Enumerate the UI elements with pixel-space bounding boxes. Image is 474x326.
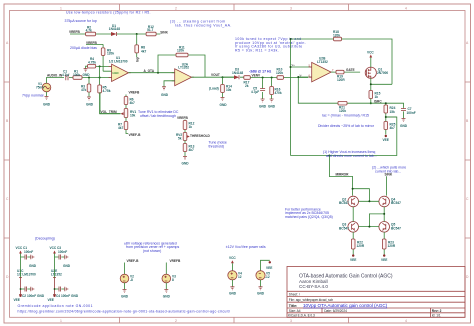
svg-text:75mV: 75mV	[36, 86, 45, 90]
svg-text:4k7: 4k7	[118, 126, 124, 130]
svg-text:THRESHOLD: THRESHOLD	[190, 134, 211, 138]
svg-text:C2 100nF GND: C2 100nF GND	[22, 294, 45, 298]
svg-text:120k: 120k	[107, 52, 114, 56]
resistor R12	[146, 25, 156, 36]
svg-text:100nF: 100nF	[58, 250, 67, 254]
svg-text:VCC: VCC	[50, 246, 57, 250]
svg-text:4.7k: 4.7k	[86, 28, 92, 32]
svg-text:VREF-B: VREF-B	[129, 133, 142, 137]
power VCC decoupling B	[50, 246, 65, 268]
resistor R8	[135, 45, 147, 53]
capacitor C_A	[24, 250, 33, 259]
svg-text:GATE: GATE	[346, 68, 355, 72]
ground right A	[29, 255, 37, 268]
svg-text:Use low-tempco resistors (25pp: Use low-tempco resistors (25ppm) for R2 …	[66, 11, 151, 15]
svg-text:GND: GND	[259, 105, 267, 109]
op-amp U1 (OTA)	[109, 56, 129, 82]
svg-text:VENV: VENV	[252, 74, 262, 78]
svg-text:GND: GND	[220, 103, 228, 107]
svg-text:KiCad E.D.A. 8.0.3: KiCad E.D.A. 8.0.3	[288, 314, 315, 318]
wire inverting input	[298, 77, 338, 103]
svg-text:-12: -12	[265, 275, 270, 279]
junction	[222, 76, 224, 78]
svg-text:VREFB: VREFB	[129, 91, 141, 95]
svg-text:VEE: VEE	[14, 298, 20, 302]
svg-text:375µA source for Iop: 375µA source for Iop	[65, 19, 97, 23]
resistor R16	[270, 78, 282, 100]
junction	[88, 77, 90, 79]
svg-text:GND: GND	[63, 264, 71, 268]
title block text	[288, 274, 442, 318]
voltage source V5	[256, 260, 270, 280]
svg-text:AUDIO_IN: AUDIO_IN	[47, 74, 63, 78]
voltage source V4	[228, 271, 242, 280]
svg-text:File: agc_whitepaper.kicad_sch: File: agc_whitepaper.kicad_sch	[289, 298, 334, 302]
power VEE V5	[266, 261, 272, 270]
ground under R14	[220, 98, 228, 108]
svg-text:120R: 120R	[337, 78, 345, 82]
voltage source V2	[120, 263, 134, 283]
svg-text:Date: 6/29/2024: Date: 6/29/2024	[324, 309, 347, 313]
resistor R15	[369, 91, 381, 104]
svg-text:120R: 120R	[388, 244, 396, 248]
wire VOUT	[192, 76, 235, 78]
wire	[86, 44, 112, 71]
transistor Q5	[379, 222, 401, 233]
ground under R4	[84, 69, 88, 72]
transistor Q4	[379, 196, 401, 207]
op-amp U2B	[309, 56, 335, 81]
pin stubs U1	[109, 66, 131, 77]
resistor R17	[244, 76, 251, 89]
svg-text:120R: 120R	[357, 244, 365, 248]
svg-text:VEE: VEE	[266, 266, 272, 270]
svg-text:10k: 10k	[130, 114, 136, 118]
svg-text:470k: 470k	[275, 91, 282, 95]
svg-text:GND: GND	[83, 73, 91, 77]
ground under V1	[43, 92, 51, 107]
potentiometer RV1	[121, 109, 137, 118]
svg-text:4k7: 4k7	[189, 148, 195, 152]
svg-text:47k: 47k	[81, 88, 87, 92]
diode D3	[223, 67, 244, 79]
svg-text:LT1352: LT1352	[51, 272, 62, 276]
svg-text:Title:: Title:	[289, 304, 298, 308]
power VEE divider	[383, 135, 389, 142]
wire mirror sense vertical	[291, 39, 397, 156]
resistor R18 feedback	[333, 30, 342, 41]
resistor R6	[124, 95, 135, 109]
resistor R19	[336, 70, 345, 82]
resistor R12b	[183, 120, 194, 133]
resistor R23	[382, 232, 395, 255]
svg-text:1: 1	[60, 7, 62, 11]
wire mirror drop	[329, 156, 369, 202]
comment: tune threshold	[209, 141, 227, 149]
svg-text:IABC: IABC	[113, 71, 119, 75]
resistor R10	[276, 67, 284, 79]
comment: pulls more current	[372, 166, 406, 174]
ground under C5	[259, 99, 267, 109]
op-amp U2A	[175, 63, 192, 86]
svg-text:VCC: VCC	[229, 256, 236, 260]
svg-text:GND: GND	[86, 103, 94, 107]
svg-text:MIRROR: MIRROR	[336, 172, 350, 176]
svg-text:GND: GND	[121, 294, 129, 298]
diode D1	[109, 24, 120, 36]
svg-text:VOUT: VOUT	[211, 73, 220, 77]
power VEE Q3	[350, 254, 356, 262]
power VCC Q1	[367, 50, 374, 67]
svg-text:Size: A4: Size: A4	[289, 309, 301, 313]
svg-text:2: 2	[175, 7, 177, 11]
svg-text:2: 2	[175, 319, 177, 323]
svg-text:4: 4	[405, 319, 407, 323]
resistor R7	[118, 118, 128, 134]
resistor R25	[384, 122, 396, 135]
svg-text:VREFB: VREFB	[177, 116, 189, 120]
svg-text:GND: GND	[182, 162, 190, 166]
svg-text:SINK: SINK	[160, 30, 168, 34]
svg-text:Iop: Iop	[136, 57, 140, 62]
svg-text:VEE: VEE	[381, 258, 387, 262]
resistor R24	[384, 105, 396, 114]
svg-text:1N4148: 1N4148	[232, 71, 243, 75]
power VEE A	[14, 295, 22, 302]
voltage source V3	[162, 263, 176, 283]
ground under R16	[268, 99, 276, 109]
svg-text:100nF: 100nF	[24, 250, 33, 254]
resistor R21	[338, 101, 371, 113]
voltage source V1	[22, 82, 51, 97]
wire	[136, 34, 138, 57]
svg-text:BC547: BC547	[391, 226, 401, 230]
ground under V2	[121, 283, 129, 299]
svg-text:GND: GND	[29, 264, 37, 268]
wire to divider	[371, 103, 404, 121]
pin stubs U2A	[172, 73, 194, 81]
resistor R13	[183, 141, 194, 157]
svg-text:1: 1	[60, 319, 62, 323]
svg-text:matched pairs (Q2/Q4, Q3/Q5): matched pairs (Q2/Q4, Q3/Q5)	[285, 215, 333, 219]
ground under U2A	[161, 81, 175, 97]
transistor Q3	[339, 222, 359, 233]
transistor Q2	[339, 196, 359, 207]
svg-text:Divider directs ~25% of Iab to: Divider directs ~25% of Iab to mirror	[318, 124, 375, 128]
svg-text:https://blog.grembier.com/2024: https://blog.grembier.com/2024/06/grembi…	[18, 310, 231, 314]
svg-text:8: 8	[172, 278, 174, 282]
svg-text:GND: GND	[257, 292, 265, 296]
svg-text:2k: 2k	[245, 84, 249, 88]
svg-text:VCC: VCC	[16, 246, 23, 250]
svg-text:V-: V-	[300, 73, 303, 77]
svg-text:GND: GND	[161, 93, 169, 97]
svg-text:and directs more current to Ia: and directs more current to Iab...	[326, 154, 377, 158]
wire gate	[331, 71, 360, 73]
svg-text:Rev: 2: Rev: 2	[432, 309, 442, 313]
svg-text:GND: GND	[43, 103, 51, 107]
ground under R13	[182, 157, 190, 166]
resistor R1	[73, 69, 90, 79]
svg-text:4: 4	[405, 7, 407, 11]
svg-text:10Vpp OTA Automatic gain contr: 10Vpp OTA Automatic gain control (AGC)	[303, 303, 388, 308]
svg-text:1/2 LM13700: 1/2 LM13700	[17, 272, 36, 276]
svg-text:SINK: SINK	[385, 172, 393, 176]
resistor R4	[88, 57, 97, 68]
resistor R14	[209, 77, 232, 97]
svg-text:VEE: VEE	[350, 258, 356, 262]
ground under V4	[229, 280, 237, 296]
resistor R22	[351, 232, 364, 255]
comment: 100k tuned	[235, 37, 306, 52]
svg-text:(not shown): (not shown)	[143, 249, 161, 253]
junction	[136, 33, 138, 35]
svg-text:B: B	[466, 119, 469, 123]
svg-text:4.7µf: 4.7µf	[62, 73, 70, 77]
svg-text:-8: -8	[130, 278, 133, 282]
svg-text:4.75k: 4.75k	[103, 89, 111, 93]
svg-text:A: A	[466, 41, 469, 45]
svg-text:3: 3	[290, 7, 292, 11]
svg-text:3: 3	[290, 319, 292, 323]
capacitor C5	[251, 78, 265, 100]
svg-text:LT1352: LT1352	[178, 66, 189, 70]
svg-text:BC547: BC547	[391, 201, 401, 205]
svg-text:Iac = (Vmax - Vnominal) / R15: Iac = (Vmax - Vnominal) / R15	[322, 113, 369, 117]
wire	[250, 77, 308, 79]
svg-text:120k: 120k	[276, 71, 283, 75]
base rail Q2-Q4	[359, 200, 379, 202]
wire source	[371, 78, 392, 90]
svg-text:GND: GND	[268, 105, 276, 109]
mosfet Q1	[365, 67, 388, 78]
svg-text:100nF: 100nF	[407, 111, 416, 115]
resistor R9	[101, 48, 114, 56]
capacitor C4	[56, 287, 79, 299]
svg-text:200µA diode bias: 200µA diode bias	[70, 46, 97, 50]
op-amp power unit U2E	[51, 268, 65, 295]
svg-text:-3dB @ 17 Hz: -3dB @ 17 Hz	[249, 69, 272, 73]
capacitor C1	[62, 69, 70, 80]
svg-text:4.7µF: 4.7µF	[251, 90, 259, 94]
svg-text:120k: 120k	[333, 33, 340, 37]
svg-text:7: 7	[332, 68, 334, 72]
svg-text:BC547: BC547	[339, 226, 349, 230]
ground right C4	[65, 287, 68, 291]
svg-text:D: D	[466, 275, 469, 279]
svg-text:GND: GND	[163, 294, 171, 298]
comment: higher Vout	[323, 150, 377, 158]
svg-text:7Vpp nominal: 7Vpp nominal	[22, 93, 44, 97]
power VEE Q5	[381, 254, 387, 262]
svg-text:GND: GND	[229, 292, 237, 296]
svg-text:VREFB: VREFB	[170, 259, 182, 263]
svg-text:1/2 LM13700: 1/2 LM13700	[109, 60, 128, 64]
svg-text:A_OTA: A_OTA	[144, 69, 155, 73]
svg-text:Id: 1/1: Id: 1/1	[432, 314, 441, 318]
pin stubs U2B	[309, 67, 334, 77]
junction	[157, 72, 159, 74]
svg-text:C: C	[466, 197, 469, 201]
ground right C2	[31, 287, 34, 291]
svg-text:A: A	[6, 41, 9, 45]
svg-text:100k: 100k	[73, 73, 80, 77]
svg-text:120k: 120k	[177, 49, 184, 53]
svg-text:V+: V+	[292, 63, 296, 67]
svg-text:120k: 120k	[339, 109, 346, 113]
power VCC V4	[229, 256, 236, 271]
svg-text:GND: GND	[400, 124, 408, 128]
svg-text:51.7: 51.7	[147, 28, 153, 32]
svg-text:C: C	[6, 197, 9, 201]
potentiometer RV2	[176, 133, 190, 141]
svg-text:10k: 10k	[226, 88, 232, 92]
resistor R5	[98, 66, 121, 113]
svg-text:±12V Vcc/Vee power rails: ±12V Vcc/Vee power rails	[226, 245, 266, 249]
wire A_OTA	[128, 72, 174, 74]
svg-text:offset / Iab feedthrough: offset / Iab feedthrough	[140, 114, 176, 118]
resistor R3	[81, 78, 91, 98]
feedback wire	[158, 55, 205, 77]
title block	[287, 267, 465, 318]
resistor R2	[86, 25, 96, 36]
wire	[100, 92, 121, 114]
svg-text:15k: 15k	[390, 110, 396, 114]
svg-text:CC-BY-SA 4.0: CC-BY-SA 4.0	[299, 284, 328, 289]
junction	[99, 77, 101, 79]
wire top feedback	[291, 39, 393, 84]
capacitor C2	[22, 287, 45, 299]
svg-text:1k: 1k	[189, 125, 193, 129]
svg-text:Sheet: /: Sheet: /	[289, 292, 300, 296]
op-amp power unit U1C	[17, 268, 36, 295]
capacitor C7	[401, 107, 416, 118]
wire	[47, 78, 112, 84]
resistor R11	[176, 45, 188, 57]
power VCC decoupling A	[16, 246, 31, 268]
svg-text:(Load): (Load)	[209, 87, 219, 91]
comment: better performance	[285, 207, 333, 219]
svg-text:12: 12	[238, 275, 242, 279]
svg-text:2N7000: 2N7000	[377, 71, 388, 75]
wire sink drop	[386, 176, 388, 195]
svg-text:C4 100nF GND: C4 100nF GND	[56, 294, 79, 298]
svg-text:LT1352: LT1352	[317, 60, 328, 64]
ground under C7	[400, 119, 408, 129]
svg-text:4k7: 4k7	[141, 49, 147, 53]
base rail Q3-Q5 and cascode tie	[359, 214, 385, 227]
ground right B	[63, 255, 71, 268]
comment: tune RV1	[138, 110, 179, 118]
ground under R3	[86, 97, 94, 107]
power VEE B	[48, 295, 56, 302]
svg-text:4k7: 4k7	[130, 101, 136, 105]
svg-text:B: B	[6, 119, 9, 123]
svg-text:(Decoupling): (Decoupling)	[35, 236, 55, 240]
svg-text:1N4148: 1N4148	[109, 27, 120, 31]
svg-text:4.75k: 4.75k	[88, 60, 96, 64]
junction	[99, 65, 101, 67]
svg-text:BC547: BC547	[339, 201, 349, 205]
svg-text:VEE: VEE	[48, 298, 54, 302]
svg-text:VEE: VEE	[383, 138, 389, 142]
capacitor C_B	[58, 250, 67, 259]
svg-text:D: D	[6, 275, 9, 279]
ground under V5	[257, 280, 265, 296]
emitter wires	[353, 207, 384, 222]
wire	[70, 33, 160, 35]
svg-text:VREF-B: VREF-B	[127, 259, 140, 263]
svg-text:Iab, thus reducing Vout_AA.: Iab, thus reducing Vout_AA.	[175, 23, 232, 27]
svg-text:threshold): threshold)	[209, 144, 225, 148]
svg-text:R5 = 91k; R11 = 243k.: R5 = 91k; R11 = 243k.	[235, 48, 279, 52]
svg-text:Grembicode application note GN: Grembicode application note GN-0001	[18, 304, 93, 308]
svg-text:4k7: 4k7	[390, 126, 396, 130]
comment: 8V references	[124, 241, 179, 253]
ground under V3	[163, 283, 171, 299]
svg-text:VCC: VCC	[367, 50, 374, 54]
svg-text:5k: 5k	[178, 137, 182, 141]
